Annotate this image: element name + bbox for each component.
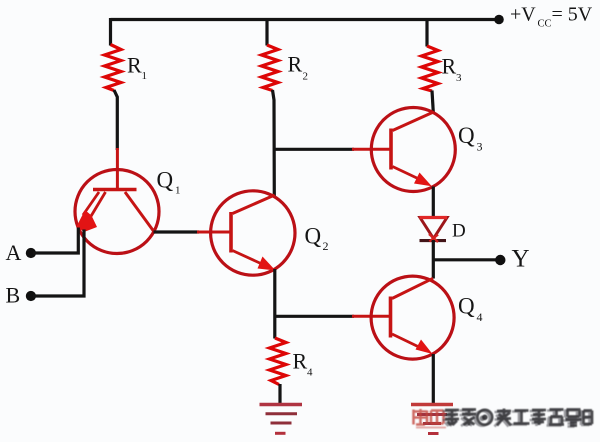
svg-text:R: R [127,53,142,78]
wire Q1 collector to Q2 base [154,230,200,233]
label R3 [442,54,463,85]
resistor R2 [262,45,279,91]
svg-text:= 5V: = 5V [552,4,593,26]
Q2 collector line [233,195,275,214]
diode D [420,218,448,243]
label +Vcc = 5V [510,4,593,30]
red watermark glyphs [414,409,447,428]
Q1 circle [75,170,159,254]
label Q2 [305,224,329,254]
Q4 base lead (red) [352,315,391,318]
svg-text:4: 4 [477,310,483,324]
Q4 collector line [392,278,433,298]
Q1 base bar [93,188,137,192]
wire rail to R2 [265,18,268,46]
dark watermark text (ghost copy) [443,410,590,427]
wire diode to Q4 collector [432,240,435,279]
label Q4 [458,294,483,325]
wire R2 down to Q2 collector [273,90,275,196]
resistor R1 [105,45,122,91]
wire R3 to Q3 collector [432,91,433,113]
wire R4 to ground [278,384,281,404]
ground (below Q4) [411,405,453,434]
transistor Q3 [352,108,455,192]
wire rail to R1 [109,18,112,46]
Q1 base lead (red) [116,148,119,189]
wire Q2 emitter down to R4 [273,269,276,339]
wire top rail Vcc [111,18,500,21]
transistor Q4 [352,276,454,359]
Vcc terminal dot [494,15,504,25]
Q3 circle [371,108,455,192]
svg-text:4: 4 [307,367,313,379]
Q4 circle [371,276,454,359]
transistor Q2 [197,191,295,275]
label R4 [293,349,314,379]
wire input A to Q1 emitter [33,228,78,254]
Q3 base lead (red) [352,148,392,151]
Q4 emitter arrow [416,340,433,355]
svg-text:1: 1 [142,70,148,82]
svg-text:3: 3 [477,139,483,153]
transistor Q1 (multi-emitter input) [75,148,159,254]
label R1 [127,53,147,83]
resistor R3 [422,46,439,91]
Q1 emitter line 2 [89,192,106,220]
Q2 base bar [229,212,233,253]
output terminal dot Y [495,255,505,265]
label Q1 [157,168,181,197]
Q4 emitter line [392,334,420,348]
Q3 emitter line [393,167,421,180]
svg-text:D: D [452,221,466,242]
input terminal dot A [26,248,36,258]
dark watermark text [445,409,592,426]
svg-text:Q: Q [157,168,174,193]
Q2 base lead (red) [197,231,232,234]
svg-text:Q: Q [458,294,475,319]
svg-text:Q: Q [305,224,322,249]
svg-text:3: 3 [456,72,462,84]
wire node to Q3 base [274,148,354,151]
svg-text:Q: Q [458,123,475,148]
svg-text:R: R [293,349,308,374]
wire input B to Q1 emitter [33,230,84,297]
svg-text:2: 2 [303,71,309,83]
svg-text:+V: +V [510,4,536,26]
Q4 base bar [389,297,393,338]
Q2 emitter arrow [258,257,276,271]
svg-text:R: R [288,52,303,77]
svg-text:Y: Y [512,246,530,273]
svg-text:CC: CC [538,19,552,30]
Q1 emitter arrow [77,210,98,232]
input terminal dot B [26,291,36,301]
wire R1 to Q1 [114,90,117,150]
svg-text:R: R [442,54,457,79]
svg-text:B: B [6,283,21,308]
Q1 collector line [125,192,154,231]
Q1 emitter line 1 [83,192,99,215]
wire node to Q4 base [275,315,354,318]
label R2 [288,52,309,83]
ground (below R4) [260,405,303,434]
wire rail to R3 [425,18,428,47]
wire Q3 emitter to diode [432,187,435,219]
wire node to output Y [433,258,496,261]
Q3 collector line [393,112,434,131]
Q3 emitter arrow [414,173,432,187]
Q3 base bar [389,129,393,170]
svg-text:2: 2 [323,239,329,253]
svg-text:1: 1 [175,185,181,197]
svg-text:A: A [6,240,22,265]
Q2 emitter line [233,251,264,265]
wire Q4 emitter to ground [432,354,435,404]
Q2 circle [211,191,295,275]
label Q3 [458,123,483,154]
resistor R4 [270,338,287,385]
